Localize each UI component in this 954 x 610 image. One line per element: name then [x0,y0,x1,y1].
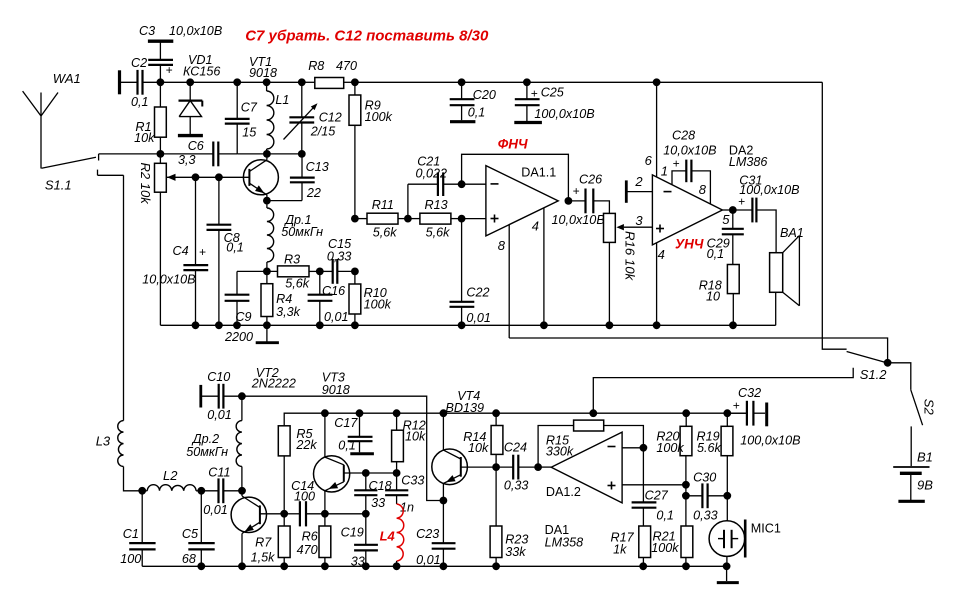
svg-text:100: 100 [294,489,315,503]
svg-text:0,1: 0,1 [468,106,486,120]
svg-text:9018: 9018 [322,383,350,397]
svg-text:C22: C22 [466,286,489,300]
svg-text:L1: L1 [275,93,289,107]
svg-text:9В: 9В [917,478,933,493]
svg-text:C13: C13 [306,160,329,174]
svg-text:33: 33 [371,496,385,510]
svg-text:+: + [199,245,206,259]
node [321,510,329,518]
junction [192,321,200,329]
node [138,487,146,495]
svg-text:3: 3 [635,213,643,228]
bus [160,324,775,326]
wire rail [160,81,301,83]
bus2 left [284,413,747,426]
svg-text:S1.1: S1.1 [45,177,72,192]
capacitor C29 [707,210,744,265]
svg-text:470: 470 [297,543,318,557]
transistor VT3 [314,371,350,514]
svg-text:C33: C33 [401,474,424,488]
svg-text:C12: C12 [319,110,342,124]
pin 2 terminal [626,174,652,203]
svg-text:8: 8 [498,238,506,253]
terminal input [118,70,121,94]
svg-text:C19: C19 [341,526,364,540]
wire rail [355,81,822,83]
wire TX top [242,396,444,500]
resistor R2 [138,163,176,326]
wire pin8 to pole [509,338,887,363]
svg-text:0,1: 0,1 [226,241,244,255]
junction [280,562,288,570]
svg-text:B1: B1 [917,450,933,465]
svg-text:0,01: 0,01 [324,310,349,324]
svg-text:10k: 10k [405,430,426,444]
capacitor C22 [450,219,491,330]
svg-text:C23: C23 [416,527,439,541]
resistor R19 [697,409,733,495]
svg-text:DA1.2: DA1.2 [546,485,581,499]
microphone MIC1 [709,496,781,570]
node [316,268,324,276]
svg-text:C30: C30 [693,470,716,484]
svg-text:L4: L4 [380,528,396,543]
svg-text:8: 8 [699,182,707,197]
svg-text:1k: 1k [613,543,627,557]
junction [215,321,223,329]
node [682,481,690,489]
svg-text:DA1.1: DA1.1 [521,166,556,180]
svg-text:L3: L3 [96,433,111,448]
node [157,150,165,158]
svg-text:100k: 100k [365,110,393,124]
capacitor C26 [552,172,610,227]
svg-text:2N2222: 2N2222 [251,377,296,391]
svg-text:С7 убрать. С12 поставить 8/30: С7 убрать. С12 поставить 8/30 [245,27,489,44]
capacitor C19 [341,514,378,570]
resistor R13 [420,198,462,240]
svg-text:L2: L2 [163,468,178,483]
svg-text:100k: 100k [364,298,392,312]
resistor R8 [302,59,357,88]
title note [245,27,489,44]
resistor R17 [611,526,651,570]
inductor L2 [142,468,201,491]
wire -in [462,183,486,185]
trimmer C12 [284,78,342,153]
opamp DA1.2 [546,432,622,503]
svg-text:C27: C27 [645,489,669,503]
svg-text:0,1: 0,1 [338,438,356,452]
svg-text:0,022: 0,022 [416,166,448,180]
choke Dr.2 [186,396,242,491]
svg-text:10,0х10В: 10,0х10В [663,143,716,157]
transistor VT1 [243,55,278,201]
svg-text:100,0х10В: 100,0х10В [740,434,800,448]
svg-text:5,6k: 5,6k [373,225,398,239]
node [263,150,271,158]
svg-text:WA1: WA1 [53,71,81,86]
speaker BA1 [770,226,804,325]
node [215,173,223,181]
svg-text:0,33: 0,33 [327,250,352,264]
resistor R6 [297,514,331,567]
node out [565,197,573,205]
base wire VT4 [461,466,496,468]
pin 4 [653,243,665,329]
transistor VT2 [231,366,296,566]
wire [408,218,420,220]
potentiometer R16 [604,213,653,329]
junction [238,562,246,570]
svg-text:BA1: BA1 [780,226,804,240]
svg-text:10,0х10В: 10,0х10В [552,213,605,227]
svg-text:5: 5 [722,212,730,227]
node [362,469,370,477]
resistor R20 [656,409,691,495]
opamp DA1.1 [486,166,558,236]
wire R3 node [237,270,278,272]
svg-text:C7: C7 [241,101,258,115]
capacitor C7 [225,78,258,153]
node [640,444,648,452]
capacitor C1 [120,491,155,567]
svg-text:C25: C25 [541,86,565,100]
resistor R5 [278,426,317,514]
wiper wire [167,176,249,178]
capacitor C4 [142,177,208,325]
svg-text:10,0х10В: 10,0х10В [169,24,222,38]
svg-text:LM358: LM358 [545,536,584,550]
svg-text:100: 100 [120,552,141,566]
capacitor C5 [182,491,215,570]
resistor R14 [463,409,503,467]
svg-text:R7: R7 [255,536,272,550]
capacitor C20 [450,78,496,121]
choke Dr.1 [267,201,323,272]
capacitor C31 [733,174,800,253]
capacitor C11 [201,465,242,517]
svg-text:R13: R13 [425,198,448,212]
node [192,173,200,181]
wire -in [622,447,643,449]
switch S1.2 [847,352,892,383]
junction [351,321,359,329]
resistor R9 [349,82,393,218]
svg-text:+: + [733,398,740,412]
resistor R10 [349,271,392,325]
svg-text:0,1: 0,1 [656,508,674,522]
battery B1 [893,450,933,502]
svg-text:100,0х10В: 100,0х10В [739,183,799,197]
node [492,463,500,471]
svg-text:LM386: LM386 [729,155,768,169]
svg-text:0,33: 0,33 [693,508,718,522]
ground MIC [717,566,739,582]
node [393,469,401,477]
capacitor C6 [178,139,237,167]
svg-text:C28: C28 [672,129,695,143]
capacitor C24 [496,441,538,493]
svg-text:22: 22 [306,186,321,200]
capacitor C27 [632,448,674,526]
svg-text:R3: R3 [284,253,300,267]
node [238,392,246,400]
capacitor C15 [320,237,355,284]
resistor R1 [134,82,166,163]
node [404,215,412,223]
capacitor C21 [408,155,462,219]
wire +in [622,484,686,486]
svg-text:100k: 100k [656,441,684,455]
svg-text:R2 10k: R2 10k [138,163,153,206]
svg-text:C1: C1 [123,527,139,541]
svg-text:C6: C6 [188,139,204,153]
svg-text:3,3k: 3,3k [276,305,301,319]
wire [325,513,366,515]
node [238,487,246,495]
node [723,492,731,500]
base wire VT3 [344,472,397,474]
capacitor C13 [267,154,329,201]
wire rail to S1.2 [822,82,846,349]
svg-text:10,0х10В: 10,0х10В [142,273,195,287]
capacitor C14 [284,479,325,527]
junction [316,321,324,329]
svg-text:100,0х10В: 100,0х10В [534,107,594,121]
svg-text:50мкГн: 50мкГн [186,445,228,459]
svg-text:УНЧ: УНЧ [675,237,704,252]
resistor R7 [251,514,290,567]
capacitor C33 [385,473,424,514]
capacitor C9 [224,271,253,344]
inductor L1 [263,78,290,153]
resistor R3 [278,253,320,291]
svg-text:C11: C11 [208,465,230,479]
wire [98,174,124,176]
wire [910,426,912,466]
svg-text:5,6k: 5,6k [285,277,310,291]
capacitor C23 [416,497,455,571]
label DA1 [545,523,584,550]
svg-text:1,5k: 1,5k [251,551,276,565]
wire RX node [99,153,214,155]
svg-text:C5: C5 [182,527,199,541]
svg-text:5.6k: 5.6k [697,441,722,455]
junction [233,321,241,329]
junction [321,562,329,570]
svg-text:10k: 10k [134,131,155,145]
inductor L4 [380,504,404,566]
svg-text:15: 15 [242,126,257,140]
wire [237,153,302,155]
node [458,180,466,188]
svg-text:10: 10 [706,290,720,304]
svg-text:22k: 22k [295,438,317,452]
svg-text:330k: 330k [546,445,574,459]
svg-text:2/15: 2/15 [310,125,337,139]
svg-text:2200: 2200 [224,330,253,344]
svg-text:3,3: 3,3 [178,153,196,167]
capacitor C18 [354,473,391,514]
terminal C10 [199,385,202,408]
node [157,78,165,86]
capacitor C17 [334,409,374,453]
svg-text:5,6k: 5,6k [426,225,451,239]
pin 8 [498,225,510,338]
wire TX to S1.2 [589,368,853,417]
svg-text:+: + [673,157,680,171]
svg-text:50мкГн: 50мкГн [281,225,323,239]
antenna WA1 [23,71,81,169]
svg-text:C32: C32 [738,386,761,400]
node out5 [722,206,736,227]
capacitor C28 label [663,129,716,171]
svg-text:C10: C10 [207,370,230,384]
label 3 [635,213,643,228]
capacitor C8 [207,177,244,325]
svg-text:2: 2 [634,174,643,189]
svg-text:R8: R8 [308,59,324,73]
node [351,268,359,276]
wire +in [355,218,367,220]
node [682,492,690,500]
svg-text:+: + [531,87,538,101]
svg-text:ФНЧ: ФНЧ [498,136,528,151]
svg-text:1: 1 [661,163,668,178]
wire L3 [96,175,143,491]
node [197,487,205,495]
svg-text:C4: C4 [173,244,189,258]
base wire [260,513,284,515]
svg-text:470: 470 [336,59,357,73]
capacitor C25 [514,78,594,122]
svg-text:0,1: 0,1 [131,95,149,109]
capacitor C30 [686,470,727,522]
label FNCH [498,136,528,151]
svg-text:4: 4 [658,247,665,262]
resistor R23 [490,467,528,570]
node [534,463,542,471]
capacitor C32 [727,386,800,448]
svg-text:C17: C17 [334,416,358,430]
label UNCH [675,237,704,252]
svg-text:33k: 33k [505,545,526,559]
pin 6 [645,78,661,177]
svg-text:100k: 100k [651,541,679,555]
svg-text:C26: C26 [579,172,602,186]
svg-text:9018: 9018 [249,66,277,80]
resistor R15 [538,420,643,467]
svg-text:R6: R6 [302,529,318,543]
svg-text:C3: C3 [139,24,155,38]
junction [393,562,401,570]
bus bottom [142,565,728,567]
resistor R21 [651,496,693,570]
svg-text:10k: 10k [468,441,489,455]
svg-text:0,33: 0,33 [504,479,529,493]
svg-text:0,01: 0,01 [203,503,228,517]
node [362,510,370,518]
node [351,215,359,223]
node [280,510,288,518]
resistor R12 [392,409,426,473]
svg-text:C24: C24 [504,441,527,455]
capacitor C2 [120,56,161,109]
svg-text:6: 6 [645,153,653,168]
feedback wire [462,154,569,201]
pin 1 C28 loop [661,160,711,204]
junction [263,321,271,329]
svg-text:S1.2: S1.2 [860,367,888,382]
svg-text:C20: C20 [473,88,496,102]
switch S2 [888,363,937,425]
node [263,268,271,276]
svg-text:0,01: 0,01 [416,553,441,567]
switch S1.1 [42,154,99,192]
node [351,78,359,86]
node [458,215,466,223]
svg-text:R16 10k: R16 10k [623,231,638,282]
transistor VT4 [432,389,484,501]
resistor R4 [261,271,301,325]
capacitor C16 [308,271,349,325]
zener VD1 [178,53,220,136]
svg-text:КС156: КС156 [183,65,220,79]
svg-text:C16: C16 [322,284,345,298]
svg-text:C2: C2 [131,56,147,70]
svg-text:0,01: 0,01 [466,311,491,325]
svg-text:BD139: BD139 [446,401,485,415]
ground [256,325,279,342]
svg-text:S2: S2 [922,399,937,416]
capacitor C10 [201,370,242,422]
svg-text:MIC1: MIC1 [751,522,781,536]
pin 4 [532,208,548,329]
node [298,150,306,158]
capacitor C3 [139,24,222,82]
svg-text:68: 68 [182,552,196,566]
wire [462,218,486,220]
svg-text:0,01: 0,01 [207,408,232,422]
svg-text:R4: R4 [276,292,292,306]
opamp DA2 [652,143,767,245]
wire [538,466,551,468]
svg-text:4: 4 [532,219,539,234]
resistor R11 [367,198,408,240]
svg-text:0,1: 0,1 [707,247,725,261]
svg-text:R11: R11 [372,198,394,212]
node [263,197,271,205]
svg-text:+: + [166,63,173,77]
resistor R18 [699,265,740,330]
svg-text:Др.2: Др.2 [191,432,219,446]
